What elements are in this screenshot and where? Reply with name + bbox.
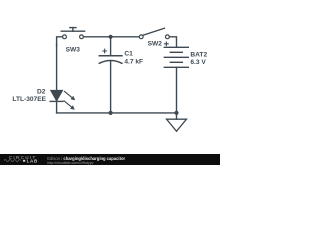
wire SW3 right terminal to node A [84, 36, 111, 38]
wire left rail down to LED anode [56, 44, 58, 90]
node B junction dot [109, 111, 113, 115]
wire LED cathode to bottom-left corner [56, 101, 58, 113]
svg-text:LAB: LAB [27, 158, 38, 163]
CircuitLab logo LAB [23, 160, 25, 162]
capacitor C1 [99, 37, 122, 113]
LED D2 [50, 90, 75, 109]
watermark bar [0, 154, 220, 165]
CircuitLab logo squiggle [4, 160, 21, 162]
wire node C to ground [176, 113, 178, 119]
wire SW2 right terminal to battery top [169, 37, 176, 47]
switch SW2 [139, 28, 169, 38]
svg-text:SW3: SW3 [66, 46, 81, 53]
wire bottom rail left segment [57, 112, 111, 114]
svg-text:BAT2: BAT2 [190, 51, 207, 58]
wire bottom rail right segment [111, 112, 177, 114]
node A junction dot [109, 35, 113, 39]
node C junction dot [174, 111, 178, 115]
svg-text:D2: D2 [37, 89, 46, 96]
battery BAT2 [164, 42, 188, 113]
wire top-left corner to SW3 left terminal [57, 37, 63, 46]
ground [167, 119, 187, 131]
svg-text:SW2: SW2 [148, 41, 163, 48]
wire node A to SW2 left terminal [111, 36, 140, 38]
pushbutton SW3 [61, 28, 84, 39]
svg-text:LTL-307EE: LTL-307EE [12, 96, 46, 103]
svg-text:http://circuitlab.com/c/9hdyyv: http://circuitlab.com/c/9hdyyv [47, 161, 93, 165]
svg-text:4.7 kF: 4.7 kF [124, 58, 143, 65]
svg-text:6.3 V: 6.3 V [190, 59, 206, 66]
svg-text:C1: C1 [124, 51, 133, 58]
